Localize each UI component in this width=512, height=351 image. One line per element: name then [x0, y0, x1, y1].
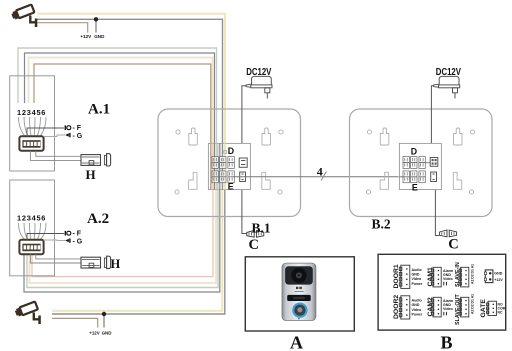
box A.1: [10, 76, 55, 171]
svg-text:A.1: A.1: [88, 102, 110, 118]
svg-text:Power: Power: [412, 282, 423, 286]
svg-text:+12V: +12V: [80, 34, 92, 39]
wire cell to power jack B2: [425, 162, 430, 164]
terminal cells D row B1: [212, 157, 234, 169]
wire DC12V B1 down to C: [242, 86, 247, 234]
wire gray A2: [24, 172, 220, 292]
wire to H camera A1 upper: [36, 151, 81, 157]
wire to H camera A2 upper: [36, 254, 81, 259]
connector +12V GND block: [485, 270, 493, 283]
power jack icon B1: [239, 158, 247, 167]
wire gray top camera gnd: [37, 19, 223, 166]
svg-text:GND: GND: [412, 303, 420, 307]
icon F connector A2: [65, 231, 71, 236]
wire B2 down to C: [435, 184, 439, 236]
svg-text:+12V: +12V: [494, 278, 503, 282]
nub camera wire termination B1: [224, 150, 227, 153]
monitor B2 body: [350, 109, 493, 217]
wire pink A2: [32, 172, 213, 277]
wire slave bus into E B2: [399, 176, 403, 178]
svg-text:NC: NC: [498, 311, 503, 315]
wire to G label A1: [44, 135, 65, 137]
wire to G label A2: [44, 239, 65, 242]
slash 4-core mark: [321, 172, 327, 181]
svg-text:+12V: +12V: [89, 331, 99, 336]
svg-text:C: C: [249, 237, 259, 253]
camera module H A1: [81, 154, 111, 166]
screw holes B1: [175, 130, 283, 194]
wires through terminal box B1 (redraw over box): [211, 143, 225, 189]
terminal box B1: [208, 143, 250, 189]
svg-text:GATE: GATE: [480, 299, 487, 318]
svg-text:Video: Video: [412, 308, 423, 312]
connector J1 A2: [19, 240, 43, 255]
bracket slot top-right B1: [262, 128, 271, 145]
svg-text:B.1: B.1: [252, 221, 271, 236]
wire yellow top camera video: [37, 14, 225, 166]
wire green A1: [18, 48, 217, 168]
fan wires A2: [19, 223, 47, 240]
connector CAM2: [432, 297, 442, 317]
svg-text:- F: - F: [73, 125, 82, 132]
slave jack icon B1: [240, 172, 246, 182]
door station body: [282, 263, 316, 320]
svg-text:GND: GND: [494, 272, 502, 276]
svg-text:C: C: [448, 236, 458, 252]
wire gnd stub top: [95, 19, 97, 32]
wire gray bottom camera: [52, 174, 225, 314]
connector SLAVE-OUT: [459, 297, 469, 317]
screw holes B2: [366, 130, 474, 194]
svg-text:- F: - F: [73, 231, 82, 238]
slave jack icon B2: [431, 172, 437, 182]
icon F connector A1: [65, 125, 71, 130]
wire green A2: [27, 172, 218, 288]
svg-text:D: D: [228, 146, 234, 156]
svg-text:A2 D2 D1 A1: A2 D2 D1 A1: [471, 294, 475, 314]
wire brown bottom camera +12V: [52, 318, 98, 327]
node gnd junction bottom: [102, 312, 106, 316]
bracket slot bottom-right B1: [262, 172, 270, 189]
bracket slot bottom-left B1: [189, 172, 197, 189]
svg-text:GND: GND: [412, 273, 420, 277]
wire gray A1: [25, 53, 215, 168]
svg-text:H: H: [111, 257, 121, 271]
connector GATE: [487, 301, 497, 315]
connector DOOR1: [399, 265, 410, 288]
svg-text:4: 4: [317, 165, 323, 179]
wire to H camera A2 lower: [30, 254, 81, 263]
camera icon bottom (CAM): [14, 302, 41, 324]
svg-text:123456: 123456: [17, 214, 46, 223]
connector SLAVE-IN: [459, 267, 469, 287]
icon G connector A2: [65, 238, 70, 242]
svg-text:Audio: Audio: [412, 268, 423, 272]
svg-text:123456: 123456: [17, 108, 46, 117]
svg-text:B.2: B.2: [372, 217, 391, 232]
wire yellow bottom camera: [52, 174, 222, 311]
svg-text:Video: Video: [412, 277, 423, 281]
wire to F label A2: [27, 234, 64, 240]
svg-text:Video: Video: [443, 277, 454, 281]
camera module H A2: [81, 256, 111, 268]
svg-text:DOOR1: DOOR1: [393, 264, 400, 288]
svg-text:A: A: [290, 333, 303, 351]
connector CAM1: [432, 267, 442, 287]
wire cream A1: [29, 58, 213, 169]
svg-text:D: D: [411, 147, 417, 157]
wire to F label A1: [27, 128, 64, 136]
power jack icon B2: [430, 158, 438, 167]
svg-text:Audio: Audio: [412, 299, 423, 303]
svg-text:- G: - G: [73, 133, 83, 140]
svg-text:A2 D2 D1 A1: A2 D2 D1 A1: [471, 264, 475, 284]
connector DOOR2: [399, 296, 410, 319]
adapter PSU B1: [246, 76, 272, 98]
terminal cells E row B2: [403, 171, 425, 183]
svg-text:Power: Power: [412, 312, 423, 316]
wire to H camera A1 lower: [30, 151, 81, 161]
box B frame: [378, 254, 506, 330]
cell pin ticks B2: [405, 158, 423, 181]
icon G connector A1: [65, 133, 70, 137]
svg-text:H: H: [86, 167, 96, 182]
bracket slot top-left B2: [380, 128, 389, 145]
svg-text:DOOR2: DOOR2: [393, 295, 400, 319]
cell pin ticks B1: [214, 158, 232, 181]
bracket slot top-left B1: [189, 128, 198, 145]
bracket slot bottom-left B2: [380, 172, 388, 189]
svg-text:Video: Video: [443, 307, 454, 311]
svg-text:GND: GND: [102, 331, 112, 336]
svg-text:A.2: A.2: [87, 211, 109, 227]
box A frame: [245, 257, 354, 331]
node gnd junction top: [94, 17, 98, 21]
svg-text:E: E: [412, 183, 418, 193]
svg-text:GND: GND: [94, 34, 105, 39]
wire gnd stub bottom: [103, 314, 105, 328]
wire brown A1: [34, 64, 211, 168]
svg-text:B: B: [441, 333, 453, 351]
wire brown top camera +12V: [37, 23, 88, 33]
monitor B1 body: [158, 109, 301, 217]
wire slave bus 4-core: [234, 176, 399, 178]
box A.2: [10, 180, 55, 276]
bracket slot top-right B2: [454, 128, 463, 145]
terminal cells E row B1: [212, 171, 234, 183]
fan wires A1: [19, 117, 47, 136]
wire DC12V B2 down: [431, 86, 433, 158]
connector J1 A1: [19, 136, 43, 151]
terminal box B2: [399, 143, 441, 189]
svg-text:- G: - G: [73, 239, 83, 246]
wire yellow A2: [30, 172, 217, 283]
terminal cells D row B2: [403, 157, 425, 169]
adapter PSU B2: [434, 76, 460, 98]
connector C icons B2: [440, 230, 457, 237]
connector C icons B1: [247, 230, 264, 237]
bracket slot bottom-right B2: [453, 172, 461, 189]
